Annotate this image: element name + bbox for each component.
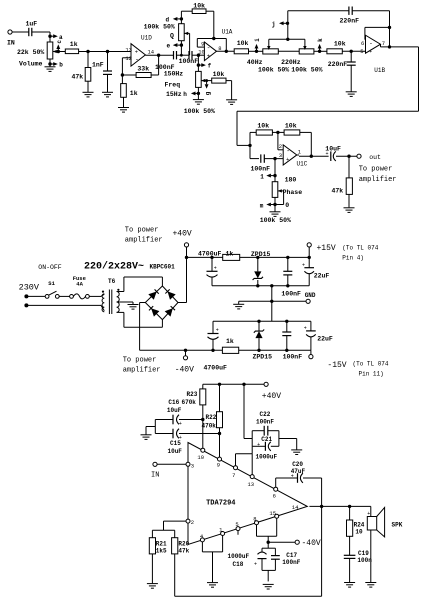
svg-text:To power: To power bbox=[359, 166, 393, 174]
svg-text:22u: 22u bbox=[317, 335, 329, 342]
resistor R24 10 bbox=[347, 506, 365, 536]
text Pin 11) bbox=[359, 370, 384, 377]
svg-text:R23: R23 bbox=[187, 391, 198, 398]
capacitor C16 10uF bbox=[173, 415, 182, 427]
svg-text:100k 50%: 100k 50% bbox=[184, 108, 215, 115]
capacitor 100nF bbox=[282, 332, 291, 336]
pin 9 bbox=[217, 457, 222, 468]
svg-text:220Hz: 220Hz bbox=[281, 59, 301, 66]
text 230V bbox=[19, 283, 40, 293]
node junction bbox=[286, 284, 289, 287]
wire bbox=[342, 50, 365, 52]
pin 1 bbox=[219, 526, 225, 535]
wire bbox=[303, 478, 322, 506]
svg-text:i: i bbox=[254, 38, 261, 42]
wire -15 rail bbox=[213, 320, 311, 322]
fuse 4A bbox=[70, 275, 90, 299]
wire bbox=[212, 339, 214, 350]
wire bbox=[211, 257, 213, 271]
svg-text:g: g bbox=[204, 91, 211, 95]
capacitor C17 100nF bbox=[271, 548, 301, 570]
wire bbox=[107, 74, 109, 92]
pin 2 bbox=[279, 143, 282, 150]
wire bbox=[314, 50, 327, 52]
pin 7 bbox=[382, 40, 385, 47]
wire bbox=[287, 275, 289, 286]
wire bbox=[87, 52, 89, 68]
capacitor C22 100nF bbox=[252, 411, 279, 435]
potentiometer 40Hz 100k bbox=[263, 46, 279, 54]
wire top bbox=[269, 38, 305, 40]
capacitor 100nF bbox=[251, 154, 271, 172]
svg-text:+: + bbox=[207, 53, 210, 60]
resistor R20 47k bbox=[172, 530, 190, 554]
svg-text:10k: 10k bbox=[334, 41, 346, 48]
wire bbox=[122, 74, 136, 76]
text 15Hz bbox=[166, 91, 182, 98]
svg-text:9: 9 bbox=[201, 41, 204, 48]
svg-text:Phase: Phase bbox=[283, 189, 303, 196]
wire bbox=[174, 554, 176, 596]
wire bbox=[179, 419, 203, 421]
wire bbox=[237, 110, 419, 112]
svg-text:R20: R20 bbox=[178, 540, 189, 547]
pin 14 bbox=[292, 504, 299, 511]
text ZPD15 bbox=[253, 353, 273, 360]
wire 7-13 bracket bbox=[236, 454, 253, 475]
pin 5 bbox=[360, 48, 363, 55]
svg-text:-: - bbox=[135, 56, 139, 63]
capacitor 220nF shunt bbox=[328, 61, 356, 68]
wire bbox=[121, 75, 123, 84]
node junction bbox=[185, 256, 188, 259]
terminal IN bbox=[151, 462, 159, 479]
wire bbox=[219, 428, 221, 457]
wire pin8-15 bracket bbox=[257, 518, 277, 536]
node junction bbox=[267, 541, 270, 544]
svg-text:b: b bbox=[59, 62, 63, 69]
text 100nF bbox=[283, 353, 303, 360]
node junction bbox=[320, 505, 323, 508]
wire gnd rail bbox=[212, 285, 309, 287]
wire bbox=[151, 74, 159, 76]
wire bbox=[122, 58, 131, 75]
svg-text:To power: To power bbox=[123, 357, 157, 365]
ground bbox=[83, 92, 94, 97]
pin 3 bbox=[279, 152, 282, 159]
svg-text:+: + bbox=[216, 328, 219, 334]
text 100k 50% bbox=[144, 23, 175, 30]
svg-text:8: 8 bbox=[253, 515, 256, 522]
resistor R22 470k bbox=[202, 412, 223, 430]
bridge rectifier KBPC601 bbox=[145, 286, 178, 320]
resistor 10k bbox=[212, 71, 226, 83]
node junction bbox=[256, 256, 259, 259]
text GND bbox=[305, 292, 316, 299]
wire bbox=[267, 536, 269, 548]
svg-text:TDA7294: TDA7294 bbox=[206, 499, 235, 507]
wire feedback bbox=[365, 27, 390, 39]
capacitor 22uF bbox=[304, 326, 329, 343]
wire bbox=[348, 194, 350, 207]
svg-text:h: h bbox=[183, 91, 187, 98]
capacitor 4700uF bbox=[208, 328, 219, 340]
wire output bbox=[309, 505, 370, 507]
node junction bbox=[350, 50, 353, 53]
wire bbox=[12, 31, 29, 33]
wire bbox=[389, 27, 391, 47]
svg-text:C18: C18 bbox=[233, 561, 244, 568]
node b bbox=[48, 62, 63, 69]
svg-text:7: 7 bbox=[382, 40, 385, 47]
wire wiper bbox=[268, 39, 270, 46]
wire -40V rail bbox=[140, 349, 311, 351]
ground bbox=[270, 212, 281, 217]
capacitor C21 1000uF bbox=[252, 431, 279, 461]
pin 15 bbox=[269, 510, 278, 518]
svg-text:GND: GND bbox=[305, 292, 316, 299]
wire wiper bbox=[275, 191, 284, 205]
pin 5 bbox=[235, 521, 240, 535]
wire bbox=[161, 277, 163, 286]
node a bbox=[48, 34, 63, 41]
wire bbox=[79, 51, 131, 53]
resistor 1k bbox=[222, 338, 238, 353]
ground bbox=[344, 208, 355, 213]
svg-text:+: + bbox=[326, 151, 329, 157]
wire bbox=[267, 570, 269, 581]
terminal out bbox=[357, 154, 381, 161]
node junction bbox=[285, 349, 288, 352]
svg-text:47k: 47k bbox=[332, 188, 344, 195]
svg-text:+: + bbox=[179, 421, 182, 427]
svg-text:T6: T6 bbox=[108, 278, 116, 285]
wire bbox=[155, 433, 173, 435]
svg-text:10: 10 bbox=[197, 454, 204, 461]
text 150Hz bbox=[164, 70, 184, 77]
wire pin2 bbox=[164, 521, 186, 530]
wire bbox=[151, 554, 153, 583]
svg-text:KBPC601: KBPC601 bbox=[150, 264, 176, 271]
text To power bbox=[123, 357, 157, 365]
potentiometer Q 100k bbox=[170, 24, 188, 41]
node junction bbox=[242, 383, 245, 386]
node d bbox=[166, 17, 184, 24]
svg-text:100k 50%: 100k 50% bbox=[260, 217, 291, 224]
text (To TL 074 bbox=[342, 244, 378, 251]
svg-text:40Hz: 40Hz bbox=[247, 59, 263, 66]
svg-text:Freq: Freq bbox=[165, 82, 181, 89]
svg-text:100k 50%: 100k 50% bbox=[258, 66, 289, 73]
resistor 10k bbox=[256, 123, 272, 135]
svg-text:SPK: SPK bbox=[392, 521, 403, 528]
wire bbox=[192, 54, 204, 56]
svg-text:7: 7 bbox=[232, 472, 235, 479]
ground bbox=[346, 92, 357, 97]
wire +40V rail bbox=[187, 256, 310, 258]
svg-text:(To TL 074: (To TL 074 bbox=[342, 244, 378, 251]
potentiometer Freq 100k bbox=[196, 71, 206, 87]
wire bbox=[348, 156, 350, 178]
svg-text:6: 6 bbox=[361, 40, 364, 47]
node junction bbox=[347, 155, 350, 158]
resistor 1k bbox=[121, 84, 138, 98]
wire gnd link bbox=[239, 300, 308, 302]
node junction bbox=[388, 45, 391, 48]
node junction bbox=[248, 144, 251, 147]
text 100k 50% bbox=[291, 66, 322, 73]
text amplifier bbox=[359, 176, 397, 184]
svg-text:100nF: 100nF bbox=[256, 419, 274, 426]
svg-text:c: c bbox=[56, 40, 63, 44]
svg-text:R22: R22 bbox=[206, 414, 217, 421]
svg-text:C17: C17 bbox=[286, 552, 297, 559]
node junction bbox=[218, 432, 221, 435]
pin 10 bbox=[197, 448, 204, 461]
svg-text:10: 10 bbox=[198, 48, 205, 55]
text 40Hz bbox=[247, 59, 263, 66]
terminal +40V bbox=[173, 229, 192, 247]
wire bbox=[107, 52, 109, 72]
svg-text:U1C: U1C bbox=[297, 161, 308, 168]
svg-text:-15V: -15V bbox=[327, 361, 346, 370]
capacitor 1nF bbox=[92, 61, 112, 74]
svg-text:10uF: 10uF bbox=[167, 407, 182, 414]
wire bbox=[258, 338, 260, 350]
node i bbox=[254, 38, 261, 53]
svg-text:100nF: 100nF bbox=[282, 559, 300, 566]
wire bbox=[287, 257, 289, 271]
capacitor C15 10uF bbox=[168, 429, 183, 455]
node junction bbox=[210, 256, 213, 259]
svg-text:+: + bbox=[214, 265, 217, 271]
capacitor 22uF bbox=[302, 262, 329, 279]
svg-text:0: 0 bbox=[285, 202, 289, 209]
capacitor 100nF second bbox=[179, 51, 199, 65]
svg-text:S1: S1 bbox=[48, 280, 55, 287]
pin 6 bbox=[273, 487, 278, 499]
wire bbox=[370, 530, 372, 582]
text (To TL 074 bbox=[353, 360, 389, 367]
svg-text:670k: 670k bbox=[182, 399, 197, 406]
svg-text:1uF: 1uF bbox=[26, 21, 38, 28]
svg-text:+: + bbox=[254, 562, 257, 568]
terminal GND bbox=[306, 299, 310, 303]
svg-text:10k: 10k bbox=[237, 40, 249, 47]
node junction bbox=[197, 54, 200, 57]
svg-text:amplifier: amplifier bbox=[123, 367, 161, 375]
svg-text:ON-OFF: ON-OFF bbox=[38, 264, 62, 271]
svg-text:ZPD15: ZPD15 bbox=[251, 251, 271, 258]
wire bbox=[211, 277, 213, 286]
svg-text:150Hz: 150Hz bbox=[164, 70, 184, 77]
svg-text:4700uF: 4700uF bbox=[198, 250, 222, 257]
svg-text:10uF: 10uF bbox=[168, 448, 183, 455]
wire bbox=[236, 111, 238, 145]
node junction bbox=[276, 131, 279, 134]
node junction bbox=[212, 37, 215, 40]
wire bbox=[308, 273, 310, 285]
op-amp U1A bbox=[204, 28, 232, 60]
svg-text:1: 1 bbox=[260, 173, 264, 180]
text 100k 50% bbox=[184, 108, 215, 115]
node f bbox=[197, 63, 212, 70]
text Freq bbox=[165, 82, 181, 89]
svg-text:10k: 10k bbox=[213, 71, 225, 78]
wire secondary bottom bbox=[117, 312, 163, 327]
node junction bbox=[201, 418, 204, 421]
svg-text:U1B: U1B bbox=[374, 67, 385, 74]
svg-text:+: + bbox=[304, 326, 307, 332]
wire bbox=[154, 420, 156, 434]
svg-text:100k 50%: 100k 50% bbox=[144, 23, 175, 30]
wire bbox=[250, 145, 259, 158]
wire feedback bbox=[197, 39, 226, 52]
svg-text:IN: IN bbox=[7, 40, 15, 47]
node l bbox=[260, 173, 276, 180]
svg-text:100nF: 100nF bbox=[179, 58, 199, 65]
wire bbox=[286, 321, 288, 350]
wire bbox=[212, 552, 214, 582]
node junction bbox=[211, 349, 214, 352]
svg-text:1000uF: 1000uF bbox=[256, 454, 278, 461]
svg-text:U1A: U1A bbox=[222, 28, 233, 35]
wire bbox=[87, 81, 89, 92]
node junction bbox=[106, 50, 109, 53]
text 180 bbox=[285, 176, 297, 183]
terminal +15V bbox=[307, 243, 336, 253]
svg-text:100k 50%: 100k 50% bbox=[291, 66, 322, 73]
svg-text:out: out bbox=[369, 154, 381, 161]
text 10uF bbox=[167, 407, 182, 414]
terminal 230V neutral bbox=[24, 303, 28, 307]
svg-text:1k5: 1k5 bbox=[156, 547, 167, 554]
capacitor 100nF bbox=[283, 271, 292, 275]
svg-text:+: + bbox=[369, 48, 372, 55]
svg-text:5: 5 bbox=[360, 48, 363, 55]
svg-text:-: - bbox=[207, 45, 211, 52]
text amplifier bbox=[123, 367, 161, 375]
node junction bbox=[308, 256, 311, 259]
terminal -40V bbox=[295, 539, 321, 548]
svg-text:6: 6 bbox=[273, 493, 276, 500]
wire bbox=[49, 32, 51, 42]
pin 9 bbox=[201, 41, 204, 48]
wire bbox=[146, 427, 155, 435]
wire bbox=[157, 463, 186, 465]
capacitor 1uF bbox=[26, 21, 38, 37]
wire bbox=[202, 405, 204, 448]
pin 1 bbox=[298, 149, 302, 156]
pin 4 bbox=[200, 533, 205, 542]
wire bbox=[238, 301, 240, 304]
ground bbox=[102, 92, 113, 97]
svg-text:9: 9 bbox=[217, 461, 220, 468]
svg-text:2: 2 bbox=[279, 143, 282, 150]
svg-text:Pin 11): Pin 11) bbox=[359, 370, 384, 377]
text To power bbox=[359, 166, 393, 174]
text Phase bbox=[283, 189, 303, 196]
pin 8 bbox=[218, 45, 221, 52]
text 100k 50% bbox=[260, 217, 291, 224]
wire pin4-1 bracket bbox=[202, 536, 222, 552]
svg-text:+: + bbox=[291, 474, 294, 480]
wire bbox=[250, 132, 256, 145]
text ZPD15 bbox=[251, 251, 271, 258]
wire bbox=[226, 81, 232, 100]
text KBPC601 bbox=[150, 264, 176, 271]
wire bbox=[249, 50, 263, 52]
node k bbox=[317, 38, 324, 53]
wire bbox=[53, 51, 66, 53]
svg-text:+: + bbox=[286, 156, 289, 163]
wire bbox=[59, 295, 69, 297]
svg-text:f: f bbox=[208, 63, 212, 70]
ground bbox=[45, 67, 56, 72]
text 220/2x28V~ bbox=[84, 261, 144, 273]
svg-text:-40V: -40V bbox=[175, 365, 194, 374]
node junction bbox=[121, 73, 124, 76]
svg-text:47k: 47k bbox=[178, 547, 189, 554]
wire bbox=[89, 294, 104, 296]
resistor 10k bbox=[234, 40, 248, 54]
ground bbox=[128, 305, 139, 310]
wire +40V rail bbox=[203, 383, 264, 385]
capacitor 220nF feedback bbox=[340, 7, 360, 25]
wire right side bbox=[418, 47, 420, 111]
wire bbox=[350, 65, 352, 91]
text 4700uF bbox=[204, 364, 228, 371]
capacitor C20 47uF bbox=[291, 461, 306, 483]
svg-text:220nF: 220nF bbox=[328, 61, 348, 68]
wire bbox=[278, 132, 283, 149]
wire bbox=[177, 54, 190, 56]
svg-text:+15V: +15V bbox=[317, 244, 336, 253]
svg-text:R24: R24 bbox=[354, 522, 365, 529]
svg-text:(To TL 074: (To TL 074 bbox=[353, 360, 389, 367]
pin 7 bbox=[232, 466, 237, 479]
svg-text:IN: IN bbox=[151, 471, 159, 479]
svg-text:470k: 470k bbox=[202, 423, 217, 430]
svg-text:amplifier: amplifier bbox=[359, 176, 397, 184]
wire wiper bbox=[201, 80, 212, 82]
zener ZPD15 bbox=[254, 330, 264, 339]
svg-text:180: 180 bbox=[285, 176, 297, 183]
svg-text:ZPD15: ZPD15 bbox=[253, 353, 273, 360]
wire bbox=[310, 321, 312, 350]
svg-text:j: j bbox=[272, 21, 276, 28]
svg-text:220nF: 220nF bbox=[340, 18, 360, 25]
svg-text:R21: R21 bbox=[156, 540, 167, 547]
node junction bbox=[257, 349, 260, 352]
node g bbox=[204, 79, 211, 95]
svg-text:+40V: +40V bbox=[173, 229, 192, 238]
ground bbox=[365, 583, 376, 588]
wire bbox=[212, 321, 214, 333]
wire bbox=[352, 11, 389, 28]
resistor R21 1k5 bbox=[149, 530, 167, 554]
node junction bbox=[256, 284, 259, 287]
pin 13 bbox=[125, 46, 132, 53]
capacitor 4700uF bbox=[207, 265, 218, 277]
svg-text:F: F bbox=[329, 335, 333, 342]
wire wiper bbox=[304, 39, 306, 46]
op-amp U1C bbox=[283, 145, 308, 168]
terminal +40V bbox=[262, 382, 281, 401]
wire bbox=[257, 257, 259, 271]
ground bbox=[226, 100, 237, 105]
wire bbox=[237, 144, 250, 146]
